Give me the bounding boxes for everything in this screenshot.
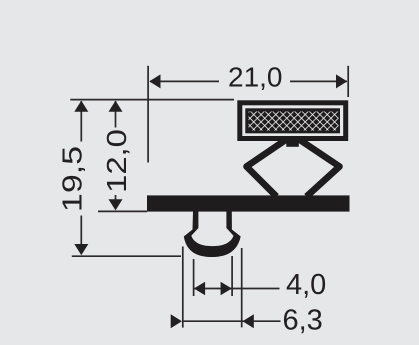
arrowhead 19,5 top (up) bbox=[74, 101, 88, 112]
extension line 6,3 right bbox=[241, 248, 243, 327]
magnet housing outer frame bbox=[237, 100, 348, 141]
arrowhead 19,5 bottom (down) bbox=[74, 244, 88, 255]
dimension line 21,0 right segment bbox=[290, 80, 347, 82]
dimension line 19,5 upper tail bbox=[80, 101, 82, 142]
dimension line 19,5 lower tail bbox=[80, 216, 82, 246]
svg-text:4,0: 4,0 bbox=[286, 269, 326, 301]
dimension line 21,0 left segment bbox=[150, 80, 219, 82]
extension tick line, bottom of flange (12,0 datum) bbox=[98, 210, 147, 212]
arrowhead 12,0 bottom (down) bbox=[109, 199, 123, 210]
extension line 6,3 left bbox=[182, 247, 184, 328]
bellows band left bbox=[247, 139, 288, 197]
push-in dart (barbed foot) bbox=[184, 212, 241, 258]
arrowhead 6,3 right (outside, points left/in) bbox=[243, 314, 254, 328]
svg-text:12,0: 12,0 bbox=[101, 129, 132, 193]
arrowhead 12,0 top (up) bbox=[109, 101, 123, 112]
extension line 4,0 left bbox=[193, 259, 195, 296]
arrowhead 21,0 right bbox=[336, 74, 347, 88]
bellows band right bbox=[299, 139, 340, 197]
svg-text:6,3: 6,3 bbox=[283, 304, 323, 336]
magnet cross-hatch fill bbox=[249, 112, 339, 131]
mounting flange bar bbox=[147, 195, 350, 211]
arrowhead 4,0 right (points right, inside) bbox=[221, 282, 232, 296]
dimension line 12,0 lower tail bbox=[115, 195, 117, 200]
arrowhead 4,0 left (points left, inside) bbox=[194, 282, 205, 296]
extension tick line, top datum (top of profile) bbox=[70, 99, 234, 101]
magnet housing inner white gap bbox=[242, 105, 343, 136]
extension line, right (width 21,0 right) bbox=[347, 66, 349, 97]
magnet block bbox=[245, 108, 340, 133]
extension line 4,0 right bbox=[231, 256, 233, 296]
dimension line 4,0 (between arrows and leader to label) bbox=[195, 288, 280, 290]
svg-text:19,5: 19,5 bbox=[56, 146, 87, 212]
bellows center tab under magnet bbox=[286, 139, 299, 147]
dimension line 6,3 leader to label bbox=[183, 320, 281, 322]
arrowhead 6,3 left (outside, points right/in) bbox=[171, 314, 182, 328]
extension line, left (width 21,0 left) bbox=[147, 66, 149, 163]
dimension line 12,0 upper tail bbox=[115, 101, 117, 128]
arrowhead 21,0 left bbox=[149, 74, 160, 88]
extension tick line, bottom of dart (19,5 datum) bbox=[72, 255, 181, 257]
svg-text:21,0: 21,0 bbox=[228, 62, 283, 93]
